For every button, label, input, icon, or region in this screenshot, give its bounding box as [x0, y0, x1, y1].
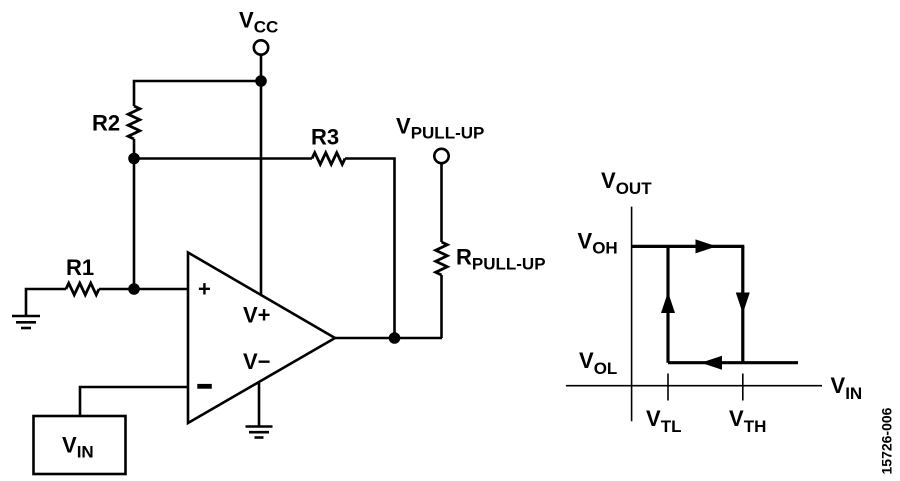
tick VTL	[667, 374, 669, 401]
wire RPULL-UP to output	[440, 275, 443, 338]
wire R3 to output node	[345, 159, 395, 339]
resistor RPULL-UP	[436, 242, 448, 275]
wire R2 node down to R1 node	[133, 159, 136, 290]
ground (V- pin)	[246, 427, 273, 438]
x-axis	[566, 385, 822, 387]
curve left segment (VTL)	[666, 246, 669, 362]
wire top horizontal (VCC node to R2 top)	[134, 81, 261, 106]
svg-text:15726-006: 15726-006	[879, 407, 895, 474]
arrow left (bottom segment)	[701, 356, 722, 370]
pin - label	[197, 384, 212, 389]
svg-text:R3: R3	[311, 125, 339, 150]
ground (left, R1)	[12, 316, 40, 328]
wire ground to R1	[26, 289, 66, 316]
terminal VCC (open circle)	[254, 40, 268, 54]
svg-text:V−: V−	[243, 349, 271, 374]
resistor R2	[128, 106, 140, 139]
wire VCC vertical (circle to V+ pin)	[260, 55, 263, 296]
curve top segment (VOH level)	[632, 245, 745, 248]
node R1 junction dot	[128, 283, 140, 295]
resistor R1	[66, 283, 99, 295]
curve bottom segment (VOL level)	[668, 361, 798, 364]
arrow up (left segment)	[661, 292, 675, 313]
node R2/R3 junction dot	[128, 153, 140, 165]
source VIN box	[34, 416, 126, 474]
node output junction dot	[389, 332, 401, 344]
wire V- pin down to ground	[258, 382, 261, 426]
svg-text:R2: R2	[92, 111, 120, 136]
svg-text:R1: R1	[66, 255, 94, 280]
node VCC junction dot	[255, 75, 267, 87]
arrow down (right segment)	[736, 293, 750, 314]
terminal VPULL-UP (open circle)	[434, 149, 448, 163]
svg-text:V+: V+	[243, 303, 271, 328]
wire R1 to plus input	[99, 288, 188, 291]
wire VIN to minus input	[80, 387, 188, 416]
op-amp U1 (comparator triangle)	[188, 253, 335, 424]
wire mid horizontal (node to R3)	[134, 157, 312, 160]
arrow right (top segment)	[696, 239, 717, 253]
resistor R3	[312, 153, 345, 165]
svg-text:+: +	[198, 277, 211, 302]
y-axis	[631, 207, 633, 422]
wire VPULL-UP down to resistor	[440, 163, 443, 242]
wire output	[335, 337, 442, 340]
wire R2 bottom to node	[133, 139, 136, 159]
curve right segment (VTH)	[741, 246, 744, 362]
tick VTH	[742, 374, 744, 401]
